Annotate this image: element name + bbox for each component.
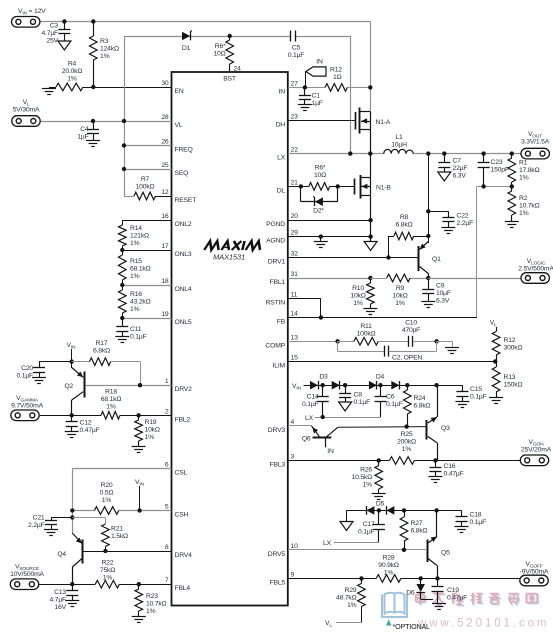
mosfet N1-A <box>356 108 371 154</box>
svg-text:24: 24 <box>234 66 242 73</box>
wire COMP line <box>288 341 338 343</box>
connector J8 VGOFF <box>520 575 548 586</box>
label C9 10µF 6.3V <box>436 283 451 305</box>
capacitor C9 <box>422 278 434 302</box>
ground of AGND <box>314 237 328 248</box>
svg-text:C19: C19 <box>447 587 459 594</box>
svg-text:25V: 25V <box>47 38 59 45</box>
svg-text:10.7kΩ: 10.7kΩ <box>146 601 167 608</box>
ground of COMP net <box>437 341 459 353</box>
op-amp U1 MAX1531 IC body <box>172 72 288 606</box>
svg-text:R20: R20 <box>101 482 113 489</box>
label N1-B <box>376 185 391 192</box>
node dot RSTIN-FB <box>319 315 323 319</box>
diode D5a <box>366 506 374 515</box>
svg-text:C18: C18 <box>470 512 482 519</box>
diode D6 <box>416 578 433 599</box>
transistor Q1 <box>419 242 429 279</box>
capacitor C8 <box>339 385 351 402</box>
svg-text:9: 9 <box>291 571 295 578</box>
svg-text:21: 21 <box>291 179 299 186</box>
label VGAMMA 9.7V/50mA <box>11 395 43 410</box>
svg-text:Q3: Q3 <box>441 425 450 432</box>
wire DL line <box>288 186 355 188</box>
label VIN (Q2) <box>67 342 77 350</box>
ground of R23 <box>132 617 146 623</box>
node dot R6-BST <box>228 34 232 38</box>
svg-text:-9V/50mA: -9V/50mA <box>520 569 549 576</box>
svg-text:FREQ: FREQ <box>175 147 193 154</box>
svg-text:LX: LX <box>305 415 314 422</box>
label C10 470pF <box>402 320 420 335</box>
U1 MAXIM logo <box>204 241 262 262</box>
diode D3b <box>332 381 340 390</box>
ground of C1 <box>298 105 312 111</box>
label C4 1µF <box>77 126 89 141</box>
svg-text:R27: R27 <box>411 520 423 527</box>
node dot C4-VL <box>91 119 95 123</box>
svg-text:1%: 1% <box>102 497 112 504</box>
wire DRV4 line <box>84 551 172 553</box>
node dot C8 top <box>343 383 347 387</box>
svg-text:6.8kΩ: 6.8kΩ <box>411 528 428 535</box>
wire VL line <box>41 121 172 123</box>
node dot LX-N1A <box>368 151 372 155</box>
node dot C6 top <box>378 383 382 387</box>
node dot rail-SEQ <box>122 167 126 171</box>
svg-text:C1: C1 <box>312 93 321 100</box>
wire Q6 collector line <box>338 426 427 429</box>
label R20 0.5Ω 1% <box>100 482 114 504</box>
svg-text:9.7V/50mA: 9.7V/50mA <box>11 403 43 410</box>
resistor R11 <box>338 338 379 346</box>
svg-text:6.8kΩ: 6.8kΩ <box>414 403 431 410</box>
label IN (Q6 base) <box>327 448 334 455</box>
node dot C16-VGON <box>433 458 437 462</box>
wire DH line <box>288 120 356 122</box>
svg-text:C21: C21 <box>33 515 45 522</box>
wire FREQ line <box>124 145 172 147</box>
diode D1 <box>182 31 192 41</box>
resistor R24 <box>404 385 412 426</box>
svg-text:R24: R24 <box>414 395 426 402</box>
svg-text:18: 18 <box>161 278 169 285</box>
ground of C9 <box>421 302 435 308</box>
resistor R1 <box>508 154 516 187</box>
label VL (R12 top) <box>490 320 497 328</box>
ground of C8 <box>339 402 352 411</box>
svg-text:D5: D5 <box>376 501 385 508</box>
wire pump line <box>304 385 437 387</box>
svg-text:2.5V/500mA: 2.5V/500mA <box>518 266 553 273</box>
node dot AGND-N1B <box>368 234 372 238</box>
node dot pump2 out <box>434 508 438 512</box>
label R23 10.7kΩ 1% <box>146 593 167 615</box>
svg-text:C8: C8 <box>354 392 363 399</box>
node dot ILIM <box>493 359 497 363</box>
label VOUT 3.3V/1.5A <box>521 131 550 146</box>
label R18 68.1kΩ 1% <box>101 389 122 411</box>
svg-text:25: 25 <box>161 162 169 169</box>
capacitor C23 <box>478 154 490 187</box>
node dot R24-Q3base <box>404 424 408 428</box>
wire BST line <box>124 36 351 154</box>
wire VIN stub CSH <box>139 486 141 511</box>
connector J4 VSOURCE <box>10 579 38 590</box>
transistor Q3 <box>427 385 438 460</box>
svg-text:C14: C14 <box>307 394 319 401</box>
ground of C4 <box>86 141 100 147</box>
svg-text:R6*: R6* <box>315 165 326 172</box>
resistor R9 <box>370 274 410 282</box>
capacitor C3 <box>58 22 70 42</box>
svg-text:1%: 1% <box>145 434 155 441</box>
node dot R23-FBL4 <box>137 582 141 586</box>
svg-text:10kΩ: 10kΩ <box>145 427 160 434</box>
ground D5 triangle <box>340 510 353 530</box>
node dot R12-VIN <box>368 85 372 89</box>
node dot VLOGIC <box>426 276 430 280</box>
node dot C12-VGAMMA <box>70 413 74 417</box>
ground of C18 <box>455 527 469 533</box>
svg-text:D6: D6 <box>406 590 415 597</box>
node dot C13-VSOURCE <box>70 582 74 586</box>
ground of C15 <box>455 402 469 408</box>
svg-text:1: 1 <box>165 378 169 385</box>
node dot R19-FBL2 <box>136 413 140 417</box>
resistor R22 <box>95 580 119 588</box>
node dot pump out <box>434 383 438 387</box>
resistor R7 <box>134 192 156 200</box>
svg-text:R29: R29 <box>345 587 357 594</box>
svg-text:20.0kΩ: 20.0kΩ <box>62 68 83 75</box>
svg-text:0.1µF: 0.1µF <box>470 394 487 401</box>
svg-text:DRV2: DRV2 <box>175 386 193 393</box>
svg-text:C13: C13 <box>54 589 66 596</box>
VIN input rail wire <box>40 22 371 112</box>
svg-text:200kΩ: 200kΩ <box>397 439 416 446</box>
label Q3 <box>441 425 450 432</box>
svg-text:R18: R18 <box>105 389 117 396</box>
svg-text:L1: L1 <box>395 134 403 141</box>
wire ONL4 line <box>122 285 171 287</box>
svg-text:LX: LX <box>277 155 286 162</box>
node dot R26-FBL3 <box>377 458 381 462</box>
wire N1B source to PGND <box>370 196 372 242</box>
svg-text:LX: LX <box>323 540 332 547</box>
label R6* 10Ω <box>213 43 226 58</box>
svg-text:DRV4: DRV4 <box>175 552 193 559</box>
node dot R29-FBL5 <box>359 576 363 580</box>
svg-text:100kΩ: 100kΩ <box>136 184 155 191</box>
node dot LX-Q1 <box>426 151 430 155</box>
label C8 0.1µF <box>354 392 371 407</box>
svg-text:100kΩ: 100kΩ <box>357 330 376 337</box>
svg-text:0.1µF: 0.1µF <box>470 519 487 526</box>
svg-text:10: 10 <box>291 543 299 550</box>
wire DRV1 line <box>288 257 418 259</box>
capacitor C1 <box>299 87 311 104</box>
node dot VIN-CSH <box>137 508 141 512</box>
node dot R1-VOUT <box>510 151 514 155</box>
resistor R12 <box>325 84 347 92</box>
capacitor C12 <box>66 415 78 431</box>
node dot AGND sym <box>319 234 323 238</box>
label C18 0.1µF <box>470 512 487 527</box>
label R10 10kΩ 1% <box>350 285 365 307</box>
wire VIN stub Q2 <box>71 349 73 368</box>
svg-text:0.1µF: 0.1µF <box>288 52 305 59</box>
wire LX stub (C17) <box>323 540 379 547</box>
svg-text:26: 26 <box>161 139 169 146</box>
label Q1 <box>432 256 441 263</box>
svg-text:0.47µF: 0.47µF <box>444 471 464 478</box>
svg-text:FBL2: FBL2 <box>175 416 191 423</box>
svg-text:20: 20 <box>291 213 299 220</box>
node dot VIN-Q2 <box>70 359 74 363</box>
svg-text:150pF: 150pF <box>491 167 509 174</box>
svg-text:R2: R2 <box>519 195 528 202</box>
ground of C22 <box>441 228 455 234</box>
label R19 10kΩ 1% <box>145 419 160 441</box>
label R21 1.5kΩ <box>111 526 128 541</box>
label R28 90.9kΩ 1% <box>378 555 399 577</box>
svg-text:C2, OPEN: C2, OPEN <box>392 355 422 362</box>
svg-text:1%: 1% <box>395 300 405 307</box>
transistor Q2 <box>72 368 85 416</box>
svg-text:ONL5: ONL5 <box>175 319 192 326</box>
svg-text:0.1µF: 0.1µF <box>302 401 319 408</box>
svg-text:6.3V: 6.3V <box>436 298 450 305</box>
label R15 68.1kΩ 1% <box>130 258 151 280</box>
svg-text:32: 32 <box>291 251 299 258</box>
U1 pin numbers and names <box>161 66 298 593</box>
ground of C3 <box>58 41 71 50</box>
svg-text:C17: C17 <box>363 521 375 528</box>
svg-text:1%: 1% <box>130 306 140 313</box>
resistor R19 <box>135 415 143 446</box>
wire IN pin line <box>288 87 370 89</box>
svg-text:R4: R4 <box>68 61 77 68</box>
node dot rail-VL <box>122 119 126 123</box>
node dot D6-FBL5 <box>419 576 423 580</box>
svg-text:SEQ: SEQ <box>175 170 189 177</box>
svg-text:R25: R25 <box>401 431 413 438</box>
svg-text:DL: DL <box>277 187 286 194</box>
wire FBL3 line <box>288 460 521 462</box>
svg-text:C20: C20 <box>21 365 33 372</box>
svg-text:CSL: CSL <box>175 470 188 477</box>
resistor R25 <box>389 457 414 465</box>
svg-text:13: 13 <box>291 334 299 341</box>
svg-text:R9: R9 <box>396 285 405 292</box>
svg-text:R12: R12 <box>504 337 516 344</box>
ground of C13 <box>65 601 79 607</box>
svg-text:10µH: 10µH <box>391 142 407 149</box>
label C6 0.1µF <box>386 394 403 409</box>
svg-text:1%: 1% <box>402 446 412 453</box>
svg-text:2.2µF: 2.2µF <box>457 220 474 227</box>
svg-text:15: 15 <box>291 355 299 362</box>
svg-text:R12: R12 <box>330 67 342 74</box>
svg-text:1µF: 1µF <box>77 134 88 141</box>
label R24 6.8kΩ <box>414 395 431 410</box>
svg-text:FB: FB <box>277 319 286 326</box>
svg-text:1%: 1% <box>130 240 140 247</box>
svg-text:N1-B: N1-B <box>376 185 391 192</box>
svg-text:2: 2 <box>165 408 169 415</box>
svg-text:17.8kΩ: 17.8kΩ <box>519 167 540 174</box>
wire EN line <box>49 87 172 89</box>
wire CSL line <box>72 469 171 534</box>
label C20 0.1µF <box>16 365 33 380</box>
svg-text:0.1µF: 0.1µF <box>130 334 147 341</box>
capacitor C5 <box>291 31 296 42</box>
label C2, OPEN <box>392 355 422 362</box>
svg-text:150kΩ: 150kΩ <box>504 382 523 389</box>
label R7 100kΩ <box>136 176 155 191</box>
capacitor C16 <box>429 461 441 477</box>
svg-text:EN: EN <box>175 88 184 95</box>
svg-text:Q5: Q5 <box>441 550 450 557</box>
svg-text:10µF: 10µF <box>436 290 451 297</box>
ground of R26 <box>372 494 386 500</box>
svg-text:0.1µF: 0.1µF <box>16 373 33 380</box>
svg-text:PGND: PGND <box>266 221 285 228</box>
node dot R3-VIN <box>91 19 95 23</box>
capacitor C22 <box>428 211 454 227</box>
svg-text:R13: R13 <box>504 374 516 381</box>
svg-text:1%: 1% <box>103 575 113 582</box>
capacitor C14 <box>317 385 329 417</box>
svg-text:R7: R7 <box>141 176 150 183</box>
svg-text:IN: IN <box>279 88 286 95</box>
label R29 48.7kΩ 1% <box>336 587 357 609</box>
resistor R17 <box>72 358 141 385</box>
svg-text:1Ω: 1Ω <box>333 74 342 81</box>
svg-text:17: 17 <box>161 243 169 250</box>
svg-text:11: 11 <box>291 292 298 299</box>
wire PGND line <box>288 220 371 222</box>
svg-text:22: 22 <box>291 147 299 154</box>
svg-text:470pF: 470pF <box>402 327 420 334</box>
svg-text:31: 31 <box>291 271 299 278</box>
wire FBL5 line <box>288 578 521 580</box>
label Q4 <box>57 551 66 558</box>
label R3 124kΩ 1% <box>100 38 119 60</box>
label VIN (pump) <box>292 383 302 391</box>
node dot C17 top <box>377 508 381 512</box>
connector J7 VGON <box>520 455 548 466</box>
label VSOURCE 10V/500mA <box>10 564 44 579</box>
svg-text:COMP: COMP <box>265 342 285 349</box>
node dot C19-FBL5 <box>435 576 439 580</box>
svg-text:R28: R28 <box>383 555 395 562</box>
connector J3 VGAMMA <box>11 410 39 421</box>
label R16 43.2kΩ 1% <box>130 291 151 313</box>
label D6 <box>406 590 415 597</box>
svg-text:1%: 1% <box>519 175 529 182</box>
svg-text:4.7µF: 4.7µF <box>49 597 66 604</box>
resistor R10 <box>367 278 375 309</box>
svg-text:R17: R17 <box>96 340 108 347</box>
resistor R8 <box>389 232 429 257</box>
svg-text:0.1µF: 0.1µF <box>354 399 371 406</box>
connector J6 VLOGIC <box>521 273 549 284</box>
capacitor C7 <box>438 154 450 172</box>
svg-text:R10: R10 <box>352 285 364 292</box>
label VGOFF -9V/50mA <box>520 561 549 576</box>
svg-text:C6: C6 <box>386 394 395 401</box>
svg-text:C16: C16 <box>444 463 456 470</box>
svg-text:10V/500mA: 10V/500mA <box>10 571 44 578</box>
svg-text:0.1µF: 0.1µF <box>358 529 375 536</box>
svg-text:75kΩ: 75kΩ <box>100 567 115 574</box>
node dot LX-C5 <box>348 151 352 155</box>
diode D5b <box>386 506 394 515</box>
label VIN (CSH) <box>135 479 145 487</box>
resistor R6* (BST) <box>226 36 234 72</box>
svg-text:10Ω: 10Ω <box>314 172 326 179</box>
resistor R2 <box>508 186 516 221</box>
node dot DL <box>299 184 303 188</box>
svg-text:DRV5: DRV5 <box>268 551 286 558</box>
svg-text:D3: D3 <box>319 374 328 381</box>
svg-text:FBL3: FBL3 <box>270 462 286 469</box>
svg-text:R16: R16 <box>130 291 142 298</box>
svg-text:C3: C3 <box>50 23 59 30</box>
ground of C12 <box>65 432 79 438</box>
svg-text:DRV1: DRV1 <box>268 259 286 266</box>
label C12 0.47µF <box>80 420 100 435</box>
node dot R8-VOUT <box>426 234 430 238</box>
svg-text:0.47µF: 0.47µF <box>447 595 467 602</box>
svg-text:1%: 1% <box>384 570 394 577</box>
svg-text:C11: C11 <box>130 326 142 333</box>
svg-text:R3: R3 <box>100 38 109 45</box>
label C3 4.7µF 25V <box>41 23 58 45</box>
wire ONL2 line <box>122 220 171 225</box>
wire CSH line <box>72 510 171 512</box>
ground of C7 <box>438 172 451 181</box>
svg-text:C15: C15 <box>470 386 482 393</box>
svg-text:IN: IN <box>316 59 323 66</box>
svg-text:1%: 1% <box>100 53 110 60</box>
capacitor C2 OPEN <box>338 341 437 356</box>
svg-text:68.1kΩ: 68.1kΩ <box>101 396 122 403</box>
svg-text:25V/20mA: 25V/20mA <box>521 447 552 454</box>
ground of C19 <box>432 604 446 610</box>
svg-text:4.7µF: 4.7µF <box>41 30 58 37</box>
svg-text:FBL4: FBL4 <box>175 585 191 592</box>
resistor R27 <box>400 510 408 549</box>
resistor R20 <box>94 507 118 515</box>
svg-text:C22: C22 <box>457 213 469 220</box>
svg-text:C10: C10 <box>405 320 417 327</box>
svg-text:BST: BST <box>223 76 236 83</box>
capacitor C11 <box>116 318 128 337</box>
wire DRV5 line <box>288 549 426 551</box>
label R13 150kΩ <box>504 374 523 389</box>
label VL 5V/30mA <box>13 99 40 114</box>
node dot rail-FREQ <box>122 143 126 147</box>
wire VL rail <box>124 36 126 196</box>
label C22 2.2µF <box>457 213 474 228</box>
node dot R17-DRV2 <box>138 383 142 387</box>
capacitor C13 <box>66 584 78 600</box>
capacitor C10 <box>378 336 436 347</box>
resistor R13 <box>492 362 500 398</box>
